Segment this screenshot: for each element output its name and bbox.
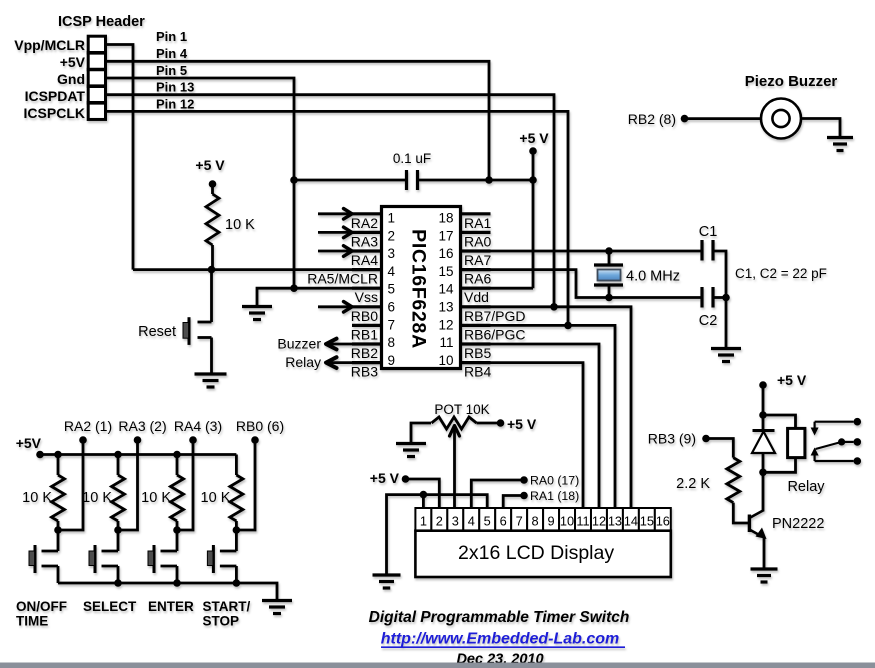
wire gnd line to C3 left plate: [294, 179, 407, 182]
svg-text:14: 14: [438, 282, 454, 297]
output arrow RB3 to relay: [329, 361, 352, 364]
svg-text:10 K: 10 K: [22, 490, 52, 506]
wire LCD pin 1 to ground link: [422, 495, 425, 508]
svg-text:Relay: Relay: [285, 354, 321, 370]
push button switch col 2: [117, 530, 120, 551]
svg-text:RA2 (1): RA2 (1): [64, 418, 112, 434]
svg-text:RA3: RA3: [351, 233, 378, 249]
wire RA7 (pin16) to C1: [461, 250, 703, 253]
svg-text:10 K: 10 K: [225, 217, 255, 233]
junction ICSPDAT x RB7: [550, 303, 558, 311]
svg-text:+5 V: +5 V: [777, 372, 807, 388]
piezo buzzer BZ1: [761, 99, 801, 139]
svg-text:2: 2: [436, 514, 443, 529]
wire node to junction col 1: [58, 440, 83, 530]
push button switch col 4: [235, 530, 238, 551]
wire MCLR net to PIC pin 4: [133, 268, 382, 271]
svg-text:RB3 (9): RB3 (9): [648, 431, 696, 447]
resistor 10K pull-up col 2: [117, 455, 120, 476]
svg-text:POT 10K: POT 10K: [434, 402, 489, 417]
LCD module pin header: [415, 508, 431, 531]
svg-text:+5V: +5V: [16, 435, 42, 451]
wire Vss to ground: [257, 288, 382, 306]
pot wiper arrow to LCD pin 3: [450, 426, 460, 437]
svg-text:RA4: RA4: [351, 252, 378, 268]
wire R5 to Q1 base: [733, 503, 749, 523]
svg-text:1: 1: [388, 211, 396, 226]
junction C2/gnd rail: [722, 294, 730, 302]
LCD module body: [415, 531, 670, 577]
svg-text:RB0: RB0: [351, 308, 378, 324]
wire relay coil top lead: [763, 415, 796, 428]
svg-text:RB0 (6): RB0 (6): [236, 418, 284, 434]
ground (LCD): [373, 573, 401, 576]
svg-text:RA3 (2): RA3 (2): [118, 418, 166, 434]
junction rail/resistor col 3: [173, 451, 181, 459]
junction bottom rail col 3: [173, 579, 181, 587]
svg-text:ICSPDAT: ICSPDAT: [25, 88, 86, 104]
junction ICSPCLK x RB6: [564, 322, 572, 330]
wire C3 right plate to Vdd line: [418, 179, 534, 182]
svg-text:9: 9: [548, 514, 555, 529]
svg-text:RB3: RB3: [351, 364, 378, 380]
wire Gnd from header (Pin 5) to ground net: [106, 78, 295, 288]
pin 9 stub (left): [352, 361, 382, 364]
svg-text:4: 4: [388, 264, 396, 279]
svg-text:2: 2: [388, 228, 396, 243]
junction pin4-line x cap wire: [485, 176, 493, 184]
wire button ground rail: [58, 583, 277, 600]
node +5V (Vdd): [529, 147, 537, 155]
svg-text:Piezo Buzzer: Piezo Buzzer: [745, 73, 838, 90]
wire +5V from header (Pin 4) to Vdd net: [106, 61, 490, 180]
svg-text:1: 1: [420, 514, 427, 529]
svg-text:RB6/PGC: RB6/PGC: [464, 326, 525, 342]
push button switch col 3: [176, 530, 179, 551]
pin 5 stub (left): [352, 287, 382, 290]
junction relay bottom: [759, 469, 767, 477]
svg-text:PIC16F628A: PIC16F628A: [407, 229, 429, 349]
ground (buttons): [262, 599, 292, 602]
svg-text:RB2: RB2: [351, 345, 378, 361]
node RA1 (18): [520, 492, 528, 500]
svg-text:12: 12: [438, 317, 453, 332]
svg-text:Pin 13: Pin 13: [156, 80, 194, 95]
push button reset switch SW1: [198, 321, 212, 324]
wire button to bottom rail col 3: [176, 566, 179, 583]
capacitor C3 0.1 uF: [405, 170, 408, 190]
ICSP header connector J1: [88, 36, 105, 119]
resistor R5 2.2K: [727, 458, 740, 503]
junction bottom rail col 4: [233, 579, 241, 587]
resistor R1 10K (MCLR pull-up): [206, 194, 219, 245]
svg-text:9: 9: [388, 353, 396, 368]
wire RB2 to buzzer: [688, 117, 761, 120]
svg-text:10 K: 10 K: [201, 490, 231, 506]
svg-text:11: 11: [576, 514, 589, 529]
wire RA1 to LCD pin 6: [503, 496, 524, 509]
wire ICSPCLK (Pin 12) to RB6/PGC: [106, 111, 569, 325]
svg-text:12: 12: [592, 514, 606, 529]
svg-text:7: 7: [516, 514, 523, 529]
junction gnd x cap wire: [290, 176, 298, 184]
wire node to junction col 4: [236, 440, 255, 530]
svg-text:Vss: Vss: [355, 289, 378, 305]
svg-text:ICSPCLK: ICSPCLK: [24, 105, 85, 121]
pin 3 stub (left): [352, 249, 382, 252]
svg-text:0.1 uF: 0.1 uF: [393, 151, 431, 166]
svg-text:8: 8: [532, 514, 539, 529]
resistor 10K pull-up col 3: [176, 455, 179, 476]
potentiometer R6 10K body: [432, 417, 477, 429]
svg-text:RB4: RB4: [464, 364, 491, 380]
svg-text:Vpp/MCLR: Vpp/MCLR: [14, 37, 85, 53]
svg-text:SELECT: SELECT: [83, 599, 137, 614]
svg-text:RB5: RB5: [464, 345, 491, 361]
wire +5V to relay/diode junction: [762, 385, 765, 415]
svg-text:17: 17: [438, 228, 453, 243]
svg-text:RA4 (3): RA4 (3): [174, 418, 222, 434]
pin 4 stub (left): [352, 268, 382, 271]
svg-text:2.2 K: 2.2 K: [676, 476, 710, 492]
junction rail/resistor col 2: [114, 451, 122, 459]
wire Vdd vertical: [532, 151, 535, 288]
wire Q1 collector: [762, 472, 765, 511]
relay contact common terminal: [842, 441, 854, 443]
svg-text:Pin 5: Pin 5: [156, 63, 187, 78]
svg-text:RA2: RA2: [351, 215, 378, 231]
transistor Q1 PN2222: [748, 515, 751, 533]
svg-text:10 K: 10 K: [82, 490, 112, 506]
wire +5V button rail: [40, 453, 236, 456]
svg-text:6: 6: [500, 514, 507, 529]
svg-text:16: 16: [656, 514, 670, 529]
wire R1 to MCLR junction: [211, 245, 214, 270]
relay contact lever: [816, 442, 842, 449]
svg-text:C1: C1: [699, 224, 718, 240]
capacitor C2 22pF: [700, 287, 703, 308]
svg-text:+5 V: +5 V: [507, 416, 537, 432]
wire button to bottom rail col 2: [117, 566, 120, 583]
wire Vpp/MCLR from header pin to MCLR net (Pin 1): [106, 45, 134, 270]
svg-text:C2: C2: [699, 313, 718, 329]
svg-text:+5 V: +5 V: [519, 130, 549, 146]
wire button to bottom rail col 1: [57, 566, 60, 583]
svg-text:Pin 1: Pin 1: [156, 29, 187, 44]
svg-text:http://www.Embedded-Lab.com: http://www.Embedded-Lab.com: [381, 631, 620, 648]
output arrow RB2 to buzzer: [329, 343, 352, 346]
pin 11 stub (right): [461, 342, 491, 345]
svg-text:4.0 MHz: 4.0 MHz: [626, 269, 680, 285]
wire RA0 to LCD pin 4: [471, 480, 524, 508]
svg-text:8: 8: [388, 335, 396, 350]
svg-text:10 K: 10 K: [141, 490, 171, 506]
relay contact NO terminal: [815, 460, 854, 462]
svg-text:RA0: RA0: [464, 233, 491, 249]
pin 7 stub (left): [352, 324, 382, 327]
svg-text:Pin 12: Pin 12: [156, 97, 194, 112]
node +5V (pot): [497, 419, 505, 427]
svg-text:7: 7: [388, 317, 396, 332]
capacitor C1 22pF: [700, 240, 703, 261]
slide bottom gray bar: [0, 663, 875, 668]
svg-text:C1, C2 = 22 pF: C1, C2 = 22 pF: [735, 266, 827, 281]
resistor 10K pull-up col 4: [235, 455, 238, 476]
junction resistor/button col 2: [114, 526, 122, 534]
svg-text:RA1 (18): RA1 (18): [530, 489, 579, 503]
input arrow into RB0: [318, 305, 351, 308]
input arrow into RA2: [318, 212, 351, 215]
wire button to bottom rail col 4: [235, 566, 238, 583]
svg-text:ENTER: ENTER: [148, 599, 194, 614]
svg-text:10: 10: [438, 353, 453, 368]
svg-text:13: 13: [608, 514, 622, 529]
svg-text:RB7/PGD: RB7/PGD: [464, 308, 525, 324]
wire pot right lead to +5V: [477, 422, 501, 425]
svg-text:Relay: Relay: [787, 479, 825, 495]
svg-text:RA7: RA7: [464, 252, 491, 268]
wire pot left lead to ground: [411, 423, 431, 444]
svg-text:14: 14: [624, 514, 638, 529]
wire RB6/PGC (pin12) to LCD pin 13: [461, 325, 616, 508]
junction pin1/ground link: [420, 491, 428, 499]
wire +5V to LCD pin 2: [406, 479, 440, 508]
junction MCLR/R1/reset: [208, 266, 216, 274]
wire RB7/PGD (pin13) to LCD pin 14: [461, 307, 632, 508]
svg-text:Pin 4: Pin 4: [156, 46, 188, 61]
junction relay top: [759, 411, 767, 419]
svg-text:6: 6: [388, 300, 396, 315]
ground (Q1): [751, 567, 778, 570]
wire ICSPDAT (Pin 13) to RB7/PGD: [106, 95, 555, 307]
svg-text:ON/OFF: ON/OFF: [16, 599, 67, 614]
wire RA6 (pin15) jog to crystal bottom: [461, 270, 703, 298]
svg-text:2x16 LCD Display: 2x16 LCD Display: [458, 542, 614, 564]
svg-text:RA5/MCLR: RA5/MCLR: [307, 271, 378, 287]
wire node to junction col 2: [118, 440, 138, 530]
push button switch col 1: [57, 530, 60, 551]
junction rail/resistor col 1: [54, 451, 62, 459]
svg-text:5: 5: [388, 282, 396, 297]
pin 2 stub (left): [352, 231, 382, 234]
ground (Vss): [242, 305, 272, 308]
wire C2 right to gnd rail: [713, 296, 726, 299]
svg-text:16: 16: [438, 246, 453, 261]
svg-text:RA0 (17): RA0 (17): [530, 474, 579, 488]
svg-text:18: 18: [438, 211, 453, 226]
wire Q1 emitter to ground: [763, 537, 766, 569]
svg-text:Gnd: Gnd: [57, 71, 85, 87]
pin 18 stub (right): [461, 212, 491, 215]
resistor 10K pull-up col 1: [57, 455, 60, 476]
wire buzzer to ground: [801, 119, 840, 138]
svg-text:+5V: +5V: [60, 54, 86, 70]
svg-text:Digital Programmable Timer Swi: Digital Programmable Timer Switch: [369, 609, 630, 626]
svg-text:START/: START/: [203, 599, 251, 614]
wire C1 right to gnd rail: [713, 251, 726, 349]
svg-text:15: 15: [438, 264, 453, 279]
node +5V (relay): [759, 381, 767, 389]
svg-text:Vdd: Vdd: [464, 289, 489, 305]
pin 13 stub (right): [461, 305, 491, 308]
svg-text:10: 10: [560, 514, 574, 529]
pin 1 stub (left): [352, 212, 382, 215]
wire RB4 (pin10) to LCD pin 11: [461, 363, 584, 508]
svg-text:3: 3: [388, 246, 396, 261]
relay contact NC terminal: [815, 421, 854, 423]
svg-text:Reset: Reset: [138, 324, 176, 340]
pin 6 stub (left): [352, 305, 382, 308]
svg-text:+5 V: +5 V: [370, 470, 400, 486]
svg-text:13: 13: [438, 300, 453, 315]
crystal X1 leads: [608, 251, 611, 265]
pin 12 stub (right): [461, 324, 491, 327]
ground (buzzer): [827, 136, 853, 139]
pin 16 stub (right): [461, 249, 491, 252]
pin 14 stub (right): [461, 287, 491, 290]
svg-text:11: 11: [439, 335, 453, 350]
junction crystal bottom: [605, 294, 613, 302]
wire RB5 (pin11) to LCD pin 12: [461, 344, 600, 508]
svg-text:3: 3: [452, 514, 459, 529]
svg-text:TIME: TIME: [16, 614, 48, 629]
svg-text:+5 V: +5 V: [195, 157, 225, 173]
svg-text:PN2222: PN2222: [772, 516, 824, 532]
ground (crystal): [711, 347, 741, 350]
IC U1 PIC16F628A body: [382, 207, 461, 369]
crystal X1 4.0 MHz: [594, 263, 623, 266]
svg-text:RA6: RA6: [464, 271, 491, 287]
svg-text:RB1: RB1: [351, 326, 378, 342]
input arrow into RA4: [318, 250, 351, 253]
diode D1 flyback: [762, 415, 765, 430]
pin 10 stub (right): [461, 361, 491, 364]
node RA0 (17): [520, 476, 528, 484]
wire RB3 to R5: [706, 439, 733, 458]
input arrow into RA3: [318, 231, 351, 234]
pin 17 stub (right): [461, 231, 491, 234]
junction resistor/button col 1: [54, 526, 62, 534]
relay K1 coil: [788, 428, 805, 457]
svg-text:ICSP Header: ICSP Header: [58, 14, 145, 30]
junction resistor/button col 4: [233, 526, 241, 534]
svg-text:4: 4: [468, 514, 475, 529]
wire junction to reset switch: [210, 270, 213, 322]
svg-text:Buzzer: Buzzer: [277, 336, 321, 352]
junction Vdd vertical x cap wire: [529, 176, 537, 184]
wire +5V to resistor R1: [211, 184, 214, 194]
svg-text:15: 15: [640, 514, 654, 529]
svg-text:RB2 (8): RB2 (8): [628, 111, 676, 127]
junction crystal top: [605, 247, 613, 255]
junction bottom rail col 2: [114, 579, 122, 587]
wire node to junction col 3: [177, 440, 193, 530]
ground (pot): [396, 442, 426, 445]
wire LCD pin1/pin5 ground link: [387, 495, 488, 574]
ground (reset): [195, 372, 227, 375]
svg-text:5: 5: [484, 514, 491, 529]
wire Vdd (pin14) to +5V: [461, 287, 534, 290]
pin 15 stub (right): [461, 268, 491, 271]
svg-text:RA1: RA1: [464, 215, 491, 231]
wire reset switch to ground: [210, 338, 213, 374]
junction resistor/button col 3: [173, 526, 181, 534]
junction gnd-line x Vss: [290, 284, 298, 292]
wire relay coil bottom lead: [763, 458, 796, 473]
svg-text:STOP: STOP: [203, 614, 240, 629]
pin 8 stub (left): [352, 342, 382, 345]
